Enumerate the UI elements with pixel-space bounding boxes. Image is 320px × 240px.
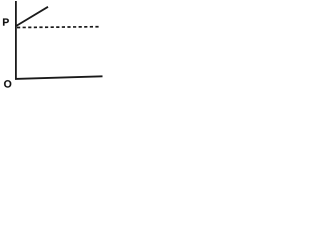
dashed horizontal price line at P [17,26,100,29]
rising solid curve from P [16,7,48,26]
x-axis [15,76,103,79]
label O [4,80,11,87]
y-axis [15,1,17,80]
label P [3,18,9,25]
